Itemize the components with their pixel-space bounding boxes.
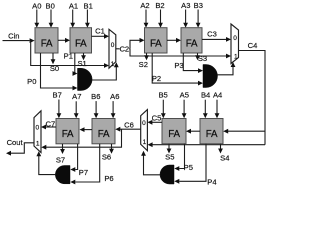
wire C2 mux M1 output trunk (116, 48, 130, 50)
svg-text:P6: P6 (104, 174, 113, 183)
wire C4 mux M2 output down right edge (239, 51, 266, 145)
full adder FA bit4 (200, 119, 223, 144)
wire B1 into FA (85, 10, 90, 28)
wire carry FA bit4 to FA bit5 (186, 129, 200, 134)
svg-text:A0: A0 (32, 1, 41, 10)
wire carry FA bit2 to FA bit3 (167, 38, 181, 43)
wire C1 FA bit1 to mux M1 input 0 (92, 34, 110, 39)
wire P3 to AND G2 (183, 53, 203, 73)
wire B3 into FA (196, 10, 201, 28)
svg-text:B5: B5 (158, 91, 167, 100)
wire P0 to AND G1 (41, 53, 78, 90)
svg-text:FA: FA (75, 38, 87, 49)
wire S1 sum output (81, 53, 86, 60)
wire C7 FA bit7 to mux M4 input 0 (41, 125, 56, 130)
svg-text:0: 0 (142, 120, 146, 127)
svg-text:P2: P2 (152, 74, 161, 83)
mux M4 (34, 111, 41, 153)
wire C2 skip branch to mux M2 input 1 (130, 49, 231, 59)
svg-text:B0: B0 (46, 1, 55, 10)
svg-text:P4: P4 (207, 178, 216, 187)
wire P7 to AND G4 (70, 144, 77, 172)
and-gate G4 block propagate P6.P7 (55, 166, 70, 184)
wire C5 FA bit5 to mux M3 input 0 (147, 120, 162, 125)
svg-text:B1: B1 (84, 1, 93, 10)
wire A7 into FA (74, 101, 79, 118)
wire A5 into FA (182, 100, 187, 119)
svg-text:S6: S6 (102, 153, 111, 162)
svg-text:P5: P5 (184, 163, 193, 172)
svg-text:0: 0 (233, 35, 237, 42)
full adder FA bit5 (162, 119, 186, 144)
mux M1 (109, 29, 116, 68)
svg-text:1: 1 (111, 61, 115, 68)
svg-text:B6: B6 (91, 92, 100, 101)
wire C6 mux M3 output into FA bit6 (115, 127, 140, 132)
svg-text:B7: B7 (53, 90, 62, 99)
svg-text:P7: P7 (79, 168, 88, 177)
wire A4 into FA (215, 100, 220, 119)
svg-text:FA: FA (206, 129, 218, 140)
wire A6 into FA (111, 101, 116, 118)
svg-text:Cout: Cout (7, 138, 24, 147)
wire B2 into FA (158, 10, 163, 28)
svg-text:P3: P3 (174, 61, 183, 70)
svg-text:C6: C6 (124, 120, 134, 129)
mux M2 (231, 24, 239, 64)
and-gate G3 block propagate P4.P5 (160, 165, 174, 184)
wire P2 to AND G2 (152, 53, 203, 86)
and-gate G2 block propagate P2.P3 (203, 65, 218, 88)
wire C6 skip branch to mux M4 input 1 (41, 129, 121, 149)
svg-text:FA: FA (186, 38, 198, 49)
svg-text:1: 1 (36, 141, 40, 148)
svg-text:FA: FA (150, 38, 162, 49)
full adder FA bit2 (145, 28, 168, 53)
svg-text:B4: B4 (201, 91, 210, 100)
svg-text:C7: C7 (46, 119, 56, 128)
mux M3 (141, 110, 148, 151)
and-gate G1 block propagate P0.P1 (78, 68, 93, 90)
wire P5 to AND G3 (174, 144, 184, 171)
wire B0 into FA (49, 10, 54, 28)
svg-text:B3: B3 (194, 1, 203, 10)
wire C2 up branch into FA bit2 (130, 38, 145, 49)
svg-text:P0: P0 (27, 77, 36, 86)
svg-text:S5: S5 (165, 152, 174, 161)
wire B4 into FA (203, 100, 208, 119)
svg-text:A4: A4 (213, 91, 222, 100)
wire A2 into FA (144, 10, 149, 28)
svg-text:S4: S4 (220, 153, 229, 162)
wire Cin skip branch to mux M1 input 1 (31, 41, 109, 68)
wire S6 sum output (109, 144, 114, 154)
svg-text:C5: C5 (152, 113, 162, 122)
svg-text:C2: C2 (119, 44, 129, 53)
svg-text:0: 0 (35, 124, 39, 131)
wire S5 sum output (167, 144, 172, 154)
svg-text:B2: B2 (155, 1, 164, 10)
wire G3 output to mux M3 select (141, 151, 160, 175)
node C2 label (119, 44, 129, 53)
wire P1 to AND G1 (73, 53, 78, 76)
svg-text:S2: S2 (139, 60, 148, 69)
svg-text:A5: A5 (180, 91, 189, 100)
full adder FA bit7 (56, 119, 79, 144)
wire C4 skip to mux M3 input 1 (148, 142, 265, 147)
svg-text:P1: P1 (64, 51, 73, 60)
full adder FA bit3 (181, 28, 202, 53)
wire A3 into FA (183, 10, 188, 28)
svg-text:FA: FA (98, 129, 110, 140)
wire S2 sum output (144, 53, 149, 60)
full adder FA bit6 (92, 119, 115, 144)
svg-text:FA: FA (41, 38, 53, 49)
svg-text:S3: S3 (198, 54, 207, 63)
wire A0 into FA (34, 10, 39, 28)
wire S3 sum output (195, 53, 200, 60)
svg-text:C1: C1 (95, 27, 105, 36)
wire B7 into FA (57, 100, 62, 119)
wire P6 to AND G4 (70, 144, 99, 185)
wire A1 into FA (70, 10, 75, 28)
svg-text:FA: FA (168, 129, 180, 140)
svg-text:A3: A3 (181, 1, 190, 10)
svg-text:Cin: Cin (8, 32, 19, 41)
wire G2 output to mux M2 select (218, 62, 236, 75)
wire P4 to AND G3 (174, 144, 206, 184)
wire Cout from mux M4 (6, 143, 34, 156)
svg-text:S1: S1 (77, 59, 86, 68)
svg-text:1: 1 (234, 53, 238, 60)
svg-text:S7: S7 (56, 156, 65, 165)
svg-text:C4: C4 (248, 41, 258, 50)
wire G4 output to mux M4 select (36, 151, 55, 174)
wire Cin input (3, 38, 35, 43)
wire S0 sum output (51, 53, 56, 64)
wire G1 output to mux M1 select (92, 62, 119, 80)
wire C4 into FA bit4 (223, 129, 265, 134)
svg-text:A2: A2 (140, 1, 149, 10)
svg-text:S0: S0 (50, 64, 59, 73)
wire B5 into FA (161, 100, 166, 119)
wire C3 FA bit3 to mux M2 input 0 (202, 37, 231, 42)
svg-text:C3: C3 (207, 30, 217, 39)
full adder FA bit1 (70, 28, 92, 53)
wire S4 sum output (218, 144, 223, 154)
wire carry FA bit6 to FA bit7 (80, 127, 93, 132)
svg-text:1: 1 (143, 139, 147, 146)
svg-text:A6: A6 (110, 92, 119, 101)
svg-text:FA: FA (62, 129, 74, 140)
wire S7 sum output (60, 144, 65, 154)
svg-text:A7: A7 (72, 92, 81, 101)
wire B6 into FA (94, 101, 99, 118)
full adder FA bit0 (35, 28, 58, 53)
wire carry FA bit0 to FA bit1 (58, 38, 70, 43)
svg-text:A1: A1 (69, 1, 78, 10)
svg-text:0: 0 (111, 42, 115, 49)
